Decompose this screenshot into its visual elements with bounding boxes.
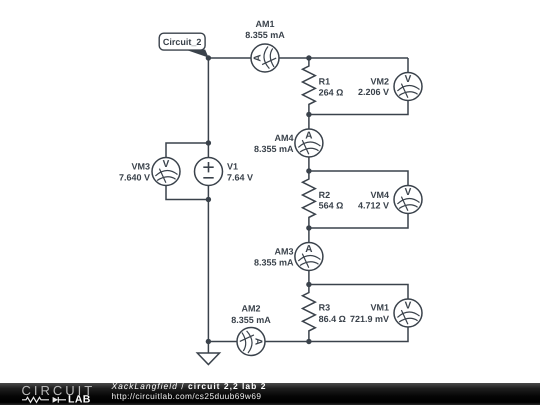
- svg-text:R2: R2: [319, 190, 331, 200]
- wire left column: [207, 58, 209, 342]
- voltmeter VM2: [394, 73, 422, 101]
- resistor R1: [303, 58, 316, 115]
- svg-text:AM4: AM4: [274, 133, 293, 143]
- svg-text:AM2: AM2: [241, 304, 260, 314]
- svg-text:2.206 V: 2.206 V: [358, 87, 389, 97]
- svg-text:VM2: VM2: [370, 76, 389, 86]
- wire bottom rail: [208, 341, 309, 343]
- voltmeter VM4: [394, 186, 422, 214]
- node top of R3: [306, 282, 311, 287]
- svg-text:A: A: [253, 54, 264, 61]
- wire middle column AM4: [308, 115, 310, 172]
- resistor R3: [303, 285, 316, 342]
- ammeter AM1: [251, 44, 279, 72]
- wire VM3 branch: [166, 143, 208, 200]
- svg-text:721.9 mV: 721.9 mV: [350, 314, 389, 324]
- svg-text:V: V: [405, 187, 412, 198]
- ammeter AM4: [295, 129, 323, 157]
- svg-text:http://circuitlab.com/cs25duub: http://circuitlab.com/cs25duub69w69: [112, 391, 262, 401]
- svg-text:AM1: AM1: [255, 19, 274, 29]
- node VM3 bottom: [206, 197, 211, 202]
- svg-text:V: V: [163, 159, 170, 170]
- resistor R2: [303, 171, 316, 228]
- svg-text:7.640 V: 7.640 V: [119, 172, 150, 182]
- node A (top-left junction): [206, 55, 211, 60]
- svg-text:86.4 Ω: 86.4 Ω: [319, 314, 346, 324]
- wire VM2 branch: [309, 58, 408, 115]
- svg-text:Circuit_2: Circuit_2: [163, 37, 202, 47]
- ground: [197, 342, 219, 365]
- svg-text:8.355 mA: 8.355 mA: [254, 257, 294, 267]
- wire VM1 branch: [309, 285, 408, 342]
- node bottom of R1: [306, 112, 311, 117]
- svg-text:V1: V1: [227, 162, 238, 172]
- voltmeter VM3: [152, 158, 180, 186]
- voltage source V1: [195, 158, 223, 186]
- node bottom of R2: [306, 225, 311, 230]
- node bottom of R3: [306, 339, 311, 344]
- svg-text:VM4: VM4: [370, 190, 389, 200]
- wire middle column AM3: [308, 228, 310, 285]
- svg-text:VM3: VM3: [131, 162, 150, 172]
- svg-text:4.712 V: 4.712 V: [358, 201, 389, 211]
- svg-text:8.355 mA: 8.355 mA: [245, 30, 285, 40]
- wire VM4 branch: [309, 171, 408, 228]
- svg-text:A: A: [305, 131, 312, 142]
- svg-text:V: V: [405, 301, 412, 312]
- svg-text:R1: R1: [319, 77, 331, 87]
- node ground junction: [206, 339, 211, 344]
- node top of R1: [306, 55, 311, 60]
- node VM3 top: [206, 140, 211, 145]
- svg-text:A: A: [305, 244, 312, 255]
- svg-text:XackLangfield / circuit 2,2 la: XackLangfield / circuit 2,2 lab 2: [111, 381, 267, 391]
- node top of R2: [306, 168, 311, 173]
- svg-text:V: V: [405, 74, 412, 85]
- svg-text:A: A: [252, 338, 263, 345]
- svg-text:AM3: AM3: [274, 246, 293, 256]
- ammeter AM3: [295, 243, 323, 271]
- footer bar: [0, 383, 540, 405]
- svg-text:7.64 V: 7.64 V: [227, 172, 253, 182]
- svg-text:8.355 mA: 8.355 mA: [254, 144, 294, 154]
- svg-text:264 Ω: 264 Ω: [319, 88, 344, 98]
- svg-text:R3: R3: [319, 303, 331, 313]
- wire top rail: [208, 57, 408, 59]
- svg-text:VM1: VM1: [370, 303, 389, 313]
- net label Circuit_2: [159, 33, 208, 57]
- ammeter AM2: [237, 328, 265, 356]
- voltmeter VM1: [394, 299, 422, 327]
- svg-text:LAB: LAB: [68, 394, 91, 405]
- svg-text:564 Ω: 564 Ω: [319, 201, 344, 211]
- svg-text:8.355 mA: 8.355 mA: [231, 315, 271, 325]
- footer logo resistor-diode icon: [22, 397, 66, 403]
